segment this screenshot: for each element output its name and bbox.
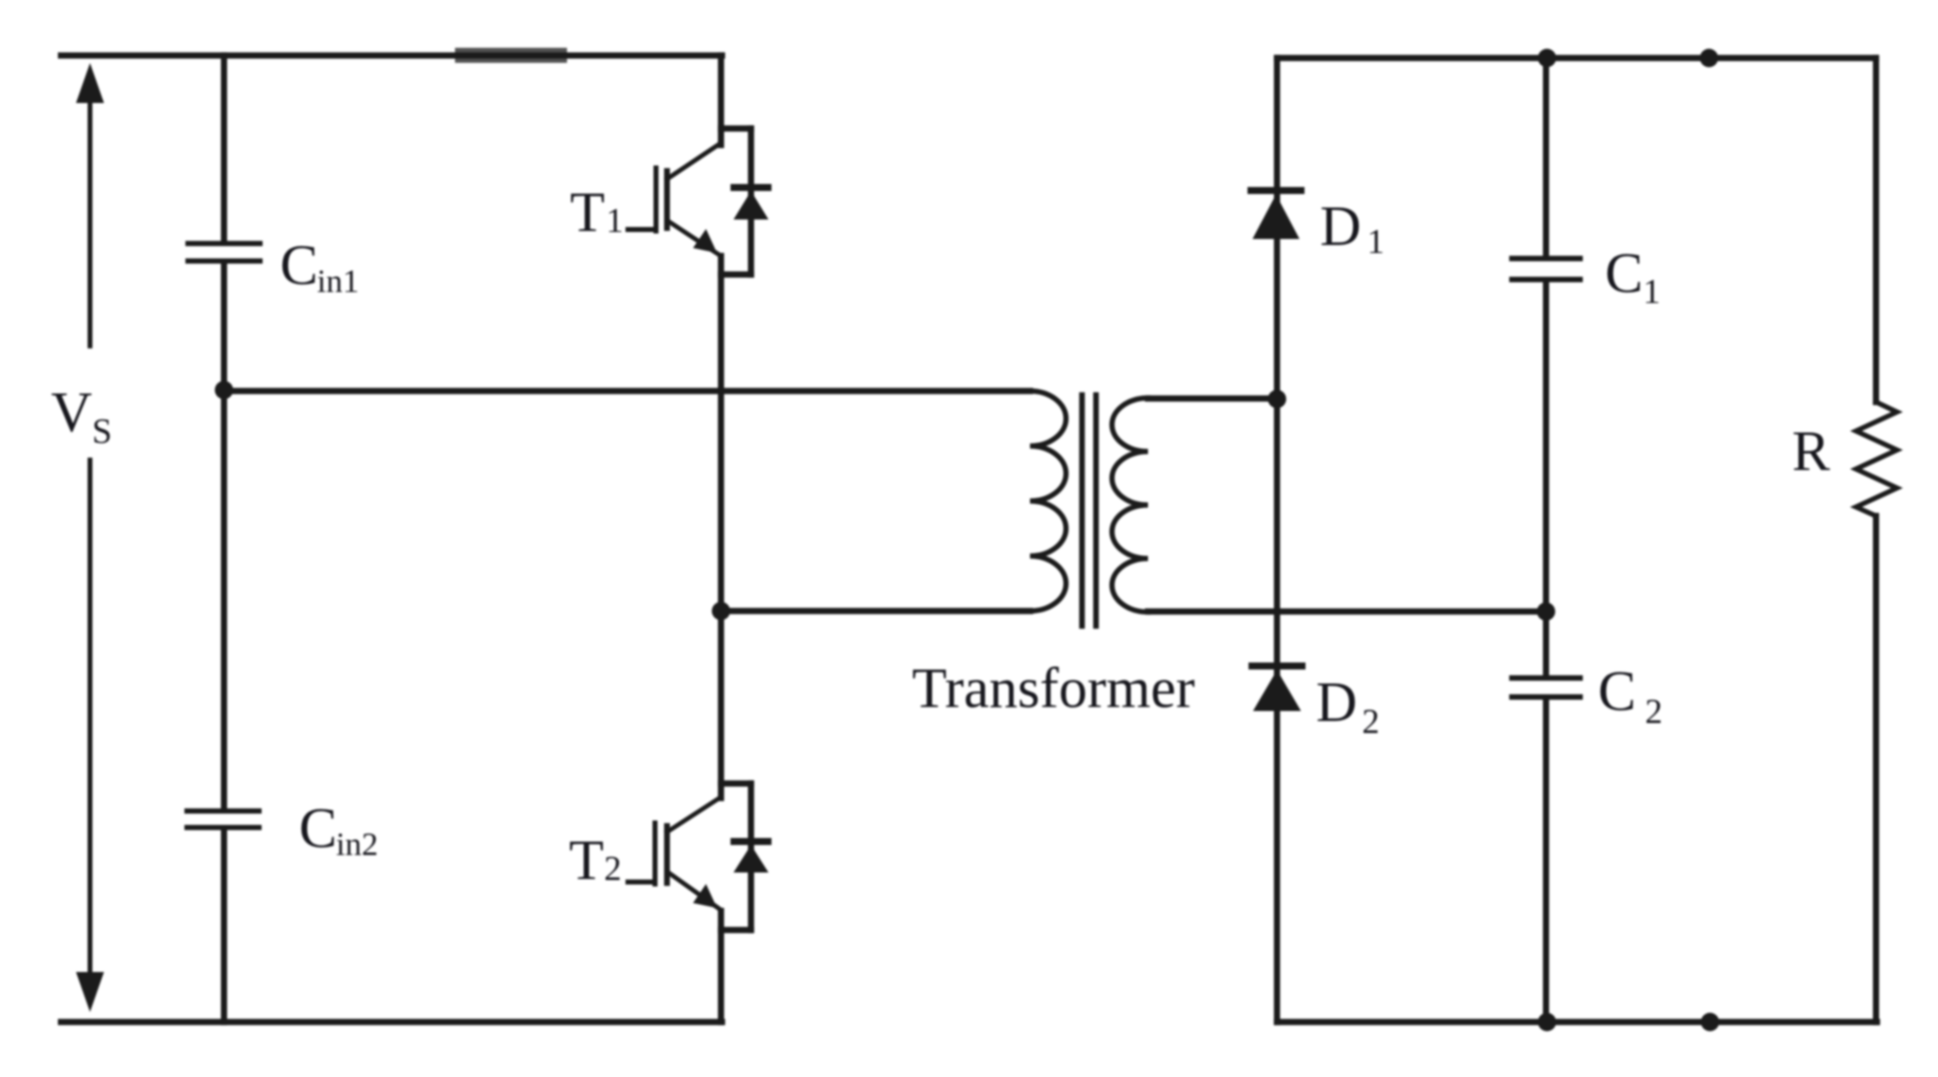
transistor T2 body bar (664, 826, 670, 883)
svg-text:Transformer: Transformer (912, 657, 1195, 720)
capacitor Cin1 upper lead (221, 56, 227, 241)
wire output capacitor branch vertical upper (1543, 58, 1549, 256)
transistor T2 antiparallel diode triangle (734, 845, 769, 873)
node dot top rail at C branch (1538, 49, 1556, 67)
source Vs arrowhead down (76, 972, 104, 1012)
transistor T2 gate bar (653, 823, 658, 884)
source Vs dimension arrow upper segment (88, 100, 93, 346)
svg-text:D: D (1316, 671, 1357, 734)
wire top-right rail (1277, 55, 1876, 61)
wire bottom-left rail (61, 1019, 722, 1025)
transistor T1 antiparallel diode bottom jog (721, 271, 751, 277)
svg-text:1: 1 (1643, 272, 1661, 311)
resistor R upper lead (1873, 58, 1879, 402)
capacitor Cin2 plates (187, 811, 259, 828)
transistor T2 antiparallel diode branch (748, 784, 754, 931)
source Vs arrowhead up (76, 63, 104, 103)
transistor T2 emitter arrowhead (693, 884, 717, 908)
wire below C2 (1543, 700, 1549, 1023)
transistor T1 (IGBT) gate lead (628, 227, 654, 232)
wire phase leg upper (top rail to T1 collector) (718, 56, 724, 146)
svg-text:S: S (92, 411, 112, 451)
capacitor C2 plates (1512, 678, 1580, 697)
svg-text:V: V (51, 381, 92, 444)
svg-text:2: 2 (1645, 692, 1663, 731)
transistor T1 collector diagonal (667, 143, 721, 179)
transformer core line 1 (1079, 395, 1085, 626)
wire secondary bottom lead (to capacitor midpoint) (1148, 608, 1546, 614)
wire diode branch vertical (1274, 58, 1280, 1022)
wire top-left rail (61, 52, 722, 58)
transistor T1 antiparallel diode cathode bar (734, 184, 768, 191)
svg-text:R: R (1792, 420, 1830, 483)
svg-text:in2: in2 (336, 827, 378, 863)
svg-text:C: C (299, 797, 337, 860)
transistor T1 emitter diagonal (668, 221, 721, 256)
wire top-left rail grey segment (455, 48, 567, 63)
transformer primary winding (1030, 391, 1066, 611)
resistor R zigzag (1856, 402, 1897, 516)
svg-text:C: C (1605, 242, 1643, 305)
transistor T1 antiparallel diode triangle (734, 191, 769, 220)
transformer core line 2 (1093, 395, 1099, 626)
svg-text:2: 2 (604, 849, 622, 888)
node capacitor midpoint dot (1537, 602, 1555, 620)
capacitor Cin1 plates (188, 244, 260, 262)
transistor T2 antiparallel diode cathode bar (734, 838, 768, 845)
svg-text:C: C (280, 234, 318, 297)
transistor T2 antiparallel diode top jog (721, 780, 751, 786)
wire bottom-right rail (1277, 1019, 1877, 1025)
capacitor Cin1 lower lead (221, 264, 227, 390)
wire between C1 and C2 (1543, 282, 1549, 676)
node secondary-top dot (1268, 390, 1286, 408)
node dot bottom rail right (1701, 1013, 1719, 1031)
transistor T1 body bar (664, 171, 670, 228)
diode D2 cathode bar (1252, 663, 1302, 670)
capacitor Cin2 lower lead (221, 831, 227, 1023)
transistor T1 antiparallel diode branch (748, 129, 754, 275)
transistor T1 gate bar (654, 168, 659, 231)
node phase-primary dot (712, 602, 730, 620)
transistor T2 collector diagonal (667, 797, 721, 832)
capacitor Cin2 upper lead (221, 390, 227, 808)
svg-text:1: 1 (606, 201, 624, 240)
svg-text:D: D (1320, 195, 1361, 258)
diode D1 cathode bar (1251, 187, 1301, 194)
transistor T2 emitter diagonal (669, 873, 721, 910)
wire middle rail (node M to transformer primary top) (224, 388, 1030, 394)
svg-text:1: 1 (1367, 222, 1385, 261)
capacitor C1 plates (1512, 259, 1580, 280)
diode D1 triangle (1253, 195, 1300, 240)
wire secondary top lead (1148, 395, 1277, 401)
svg-text:2: 2 (1362, 702, 1380, 741)
node dot top rail right (1700, 49, 1718, 67)
source Vs dimension arrow lower segment (88, 460, 93, 974)
svg-text:T: T (569, 829, 604, 892)
diode D2 triangle (1253, 670, 1301, 711)
transistor T2 (IGBT) gate lead (628, 880, 653, 885)
transistor T1 antiparallel diode top jog (721, 125, 751, 131)
transistor T2 antiparallel diode bottom jog (721, 927, 751, 933)
svg-text:in1: in1 (317, 264, 359, 300)
svg-text:T: T (570, 181, 605, 244)
transistor T1 emitter arrowhead (693, 229, 717, 253)
node dot bottom rail at C branch (1538, 1013, 1556, 1031)
resistor R lower lead (1873, 516, 1879, 1022)
svg-text:C: C (1598, 660, 1636, 723)
node M dot (cap midpoint) (215, 381, 233, 399)
wire phase leg lower (T2 emitter to bottom rail) (718, 911, 724, 1022)
wire primary bottom lead (721, 608, 1030, 614)
wire phase leg middle (T1 emitter to T2 collector) (718, 256, 724, 798)
transformer secondary winding (1112, 398, 1148, 612)
